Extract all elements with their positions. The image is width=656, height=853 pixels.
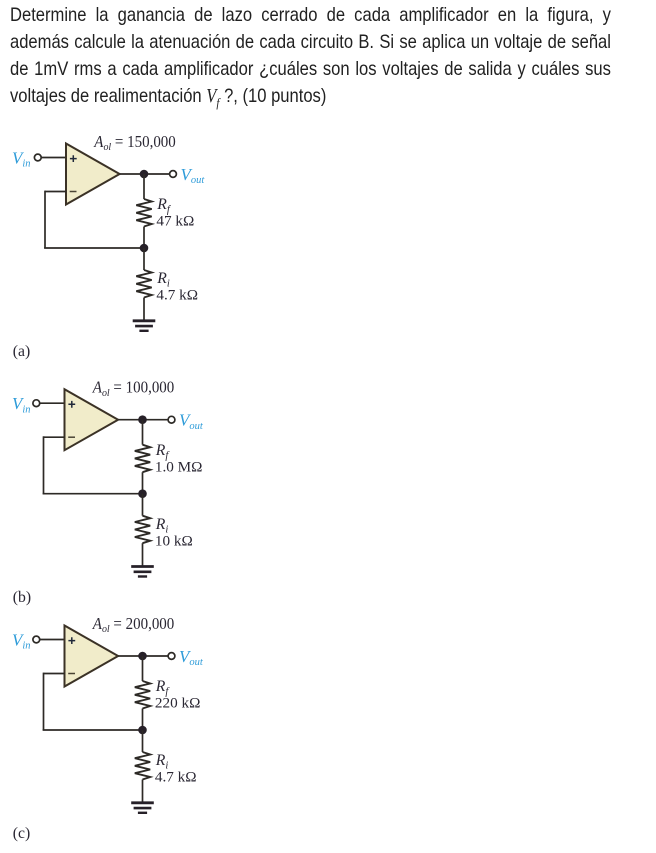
resistor Rf (a) — [136, 199, 151, 227]
resistor Ri (b) — [135, 516, 150, 544]
resistor Rf (b) — [135, 445, 150, 473]
svg-text:Vin: Vin — [12, 149, 31, 170]
svg-text:(c): (c) — [13, 825, 30, 842]
wire feedback vertical — [43, 673, 45, 730]
node feedback junction between Rf and Ri — [140, 244, 149, 253]
node Vin input terminal (a) — [34, 154, 41, 161]
svg-text:4.7 kΩ: 4.7 kΩ — [156, 287, 198, 304]
wire output to Rf — [143, 174, 145, 199]
svg-text:Vout: Vout — [181, 165, 206, 186]
wire feedback horizontal to node between Rf and Ri — [43, 729, 143, 731]
pin - (inverting input) — [68, 436, 75, 438]
wire output to Rf — [142, 656, 144, 681]
wire output to Rf — [142, 420, 144, 445]
svg-text:1.0 MΩ: 1.0 MΩ — [155, 458, 203, 475]
wire feedback horizontal to node between Rf and Ri — [44, 247, 144, 249]
wire feedback to - input — [45, 191, 66, 193]
svg-text:10 kΩ: 10 kΩ — [155, 532, 193, 549]
node output junction — [138, 415, 147, 424]
node output junction — [140, 170, 149, 179]
pin + (non-inverting input) — [68, 401, 75, 408]
node feedback junction between Rf and Ri — [138, 726, 147, 735]
wire Ri to ground — [142, 780, 144, 803]
wire junction to Ri — [142, 730, 144, 752]
node Vout output terminal (b) — [168, 416, 175, 423]
wire Rf to junction — [142, 709, 144, 731]
wire Ri to ground — [143, 298, 145, 321]
wire junction to Ri — [143, 248, 145, 270]
op-amp UB — [65, 389, 119, 450]
node Vin input terminal (c) — [33, 636, 40, 643]
wire feedback to - input — [44, 436, 65, 438]
op-amp UA — [66, 144, 120, 205]
node output junction — [138, 652, 147, 661]
svg-text:Aol = 150,000: Aol = 150,000 — [93, 132, 175, 153]
svg-text:(a): (a) — [13, 343, 30, 360]
svg-text:(b): (b) — [13, 589, 31, 606]
resistor Rf (c) — [135, 681, 150, 709]
wire op-amp output — [118, 419, 168, 421]
svg-text:47 kΩ: 47 kΩ — [156, 213, 194, 230]
resistor Ri (c) — [135, 752, 150, 780]
svg-text:Vout: Vout — [179, 647, 204, 668]
wire feedback vertical — [43, 436, 45, 493]
node Vin input terminal (b) — [33, 400, 40, 407]
svg-text:Vin: Vin — [12, 394, 31, 415]
wire op-amp output — [118, 655, 168, 657]
wire feedback to - input — [44, 673, 65, 675]
pin - (inverting input) — [70, 191, 77, 193]
svg-text:Aol = 200,000: Aol = 200,000 — [92, 614, 174, 635]
wire Vin to op-amp + input — [40, 402, 65, 404]
pin - (inverting input) — [68, 673, 75, 675]
pin + (non-inverting input) — [68, 637, 75, 644]
ground — [133, 321, 156, 331]
ground — [131, 567, 154, 577]
node feedback junction between Rf and Ri — [138, 489, 147, 498]
op-amp UC — [65, 626, 119, 687]
resistor Ri (a) — [136, 270, 151, 298]
wire feedback vertical — [44, 191, 46, 248]
wire Ri to ground — [142, 543, 144, 566]
node Vout output terminal (a) — [170, 171, 177, 178]
wire feedback horizontal to node between Rf and Ri — [43, 493, 143, 495]
svg-text:220 kΩ: 220 kΩ — [155, 695, 200, 712]
wire Vin to op-amp + input — [40, 639, 65, 641]
wire Rf to junction — [142, 472, 144, 494]
svg-text:Vin: Vin — [12, 631, 31, 652]
svg-text:Aol = 100,000: Aol = 100,000 — [92, 378, 174, 399]
wire Rf to junction — [143, 227, 145, 249]
wire Vin to op-amp + input — [41, 157, 66, 159]
svg-text:4.7 kΩ: 4.7 kΩ — [155, 769, 197, 786]
ground — [131, 803, 154, 813]
node Vout output terminal (c) — [168, 653, 175, 660]
pin + (non-inverting input) — [70, 155, 77, 162]
svg-text:Vout: Vout — [179, 411, 204, 432]
wire op-amp output — [120, 173, 170, 175]
wire junction to Ri — [142, 494, 144, 516]
